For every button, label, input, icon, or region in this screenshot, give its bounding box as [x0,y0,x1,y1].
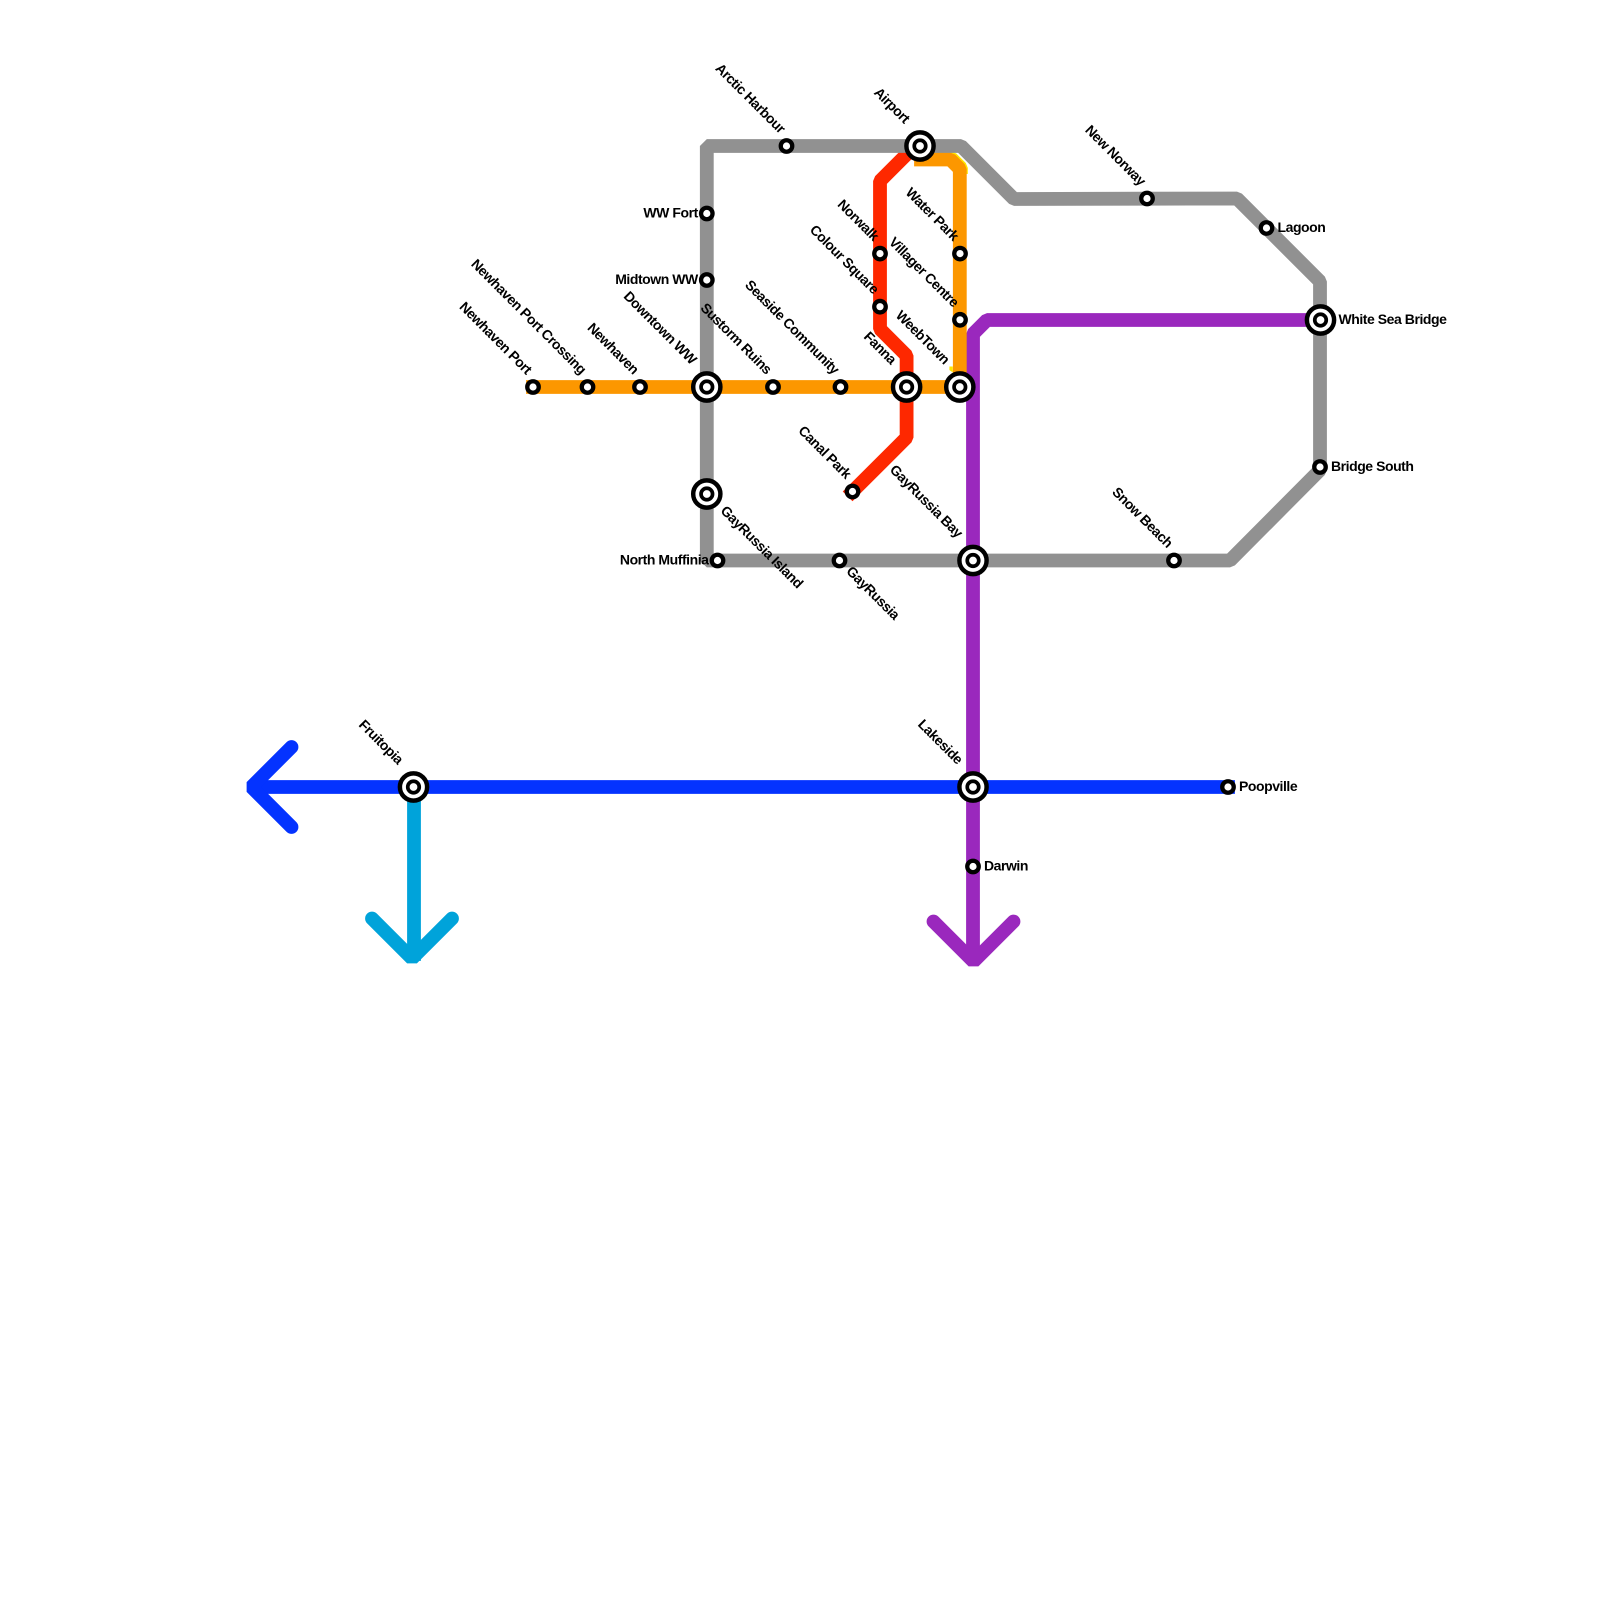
svg-text:Poopville: Poopville [1239,778,1298,794]
svg-text:Darwin: Darwin [984,858,1028,874]
svg-text:White Sea Bridge: White Sea Bridge [1339,311,1448,327]
svg-text:North Muffinia: North Muffinia [620,552,709,568]
svg-text:Midtown WW: Midtown WW [615,271,699,287]
svg-text:WW Fort: WW Fort [643,205,698,221]
svg-text:Bridge South: Bridge South [1331,458,1413,474]
svg-text:Lagoon: Lagoon [1278,219,1326,235]
